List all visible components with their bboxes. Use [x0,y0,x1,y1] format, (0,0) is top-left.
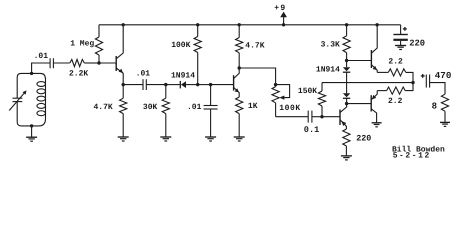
wire tank left branch top [17,73,31,98]
svg-text:3.3K: 3.3K [321,41,340,50]
wire pot bottom to 0.1 cap [276,116,309,118]
svg-text:1N914: 1N914 [316,66,340,75]
transistor Q2 emitter [234,87,240,97]
label + 220 cap [403,27,407,31]
transistor Q3 base bar [370,50,372,68]
wire emitter node to .01 cap [123,84,143,86]
node Q1 emitter [122,83,125,86]
wire .01 node to Q2 base [211,84,234,86]
svg-text:2.2: 2.2 [388,97,403,106]
transistor Q4 emitter [340,120,346,129]
transistor Q5 emitter [371,91,377,100]
node output [411,81,414,84]
label 100K top [171,41,190,50]
svg-text:220: 220 [356,133,371,143]
svg-text:30K: 30K [143,103,158,112]
wire output line 150K to cap [322,82,413,84]
label 1N914 D1 [171,72,195,81]
resistor 100K [194,37,201,53]
wire cap to speaker [430,83,445,95]
resistor 3.3K [343,25,350,61]
resistor 1Meg [95,37,102,55]
wire cap to 30K node [146,84,166,86]
transistor Q1 emitter [116,68,123,85]
svg-text:100K: 100K [279,104,300,113]
label 150K [298,87,317,96]
svg-text:4.7K: 4.7K [245,42,264,51]
wire 2.2K to base node [84,62,99,64]
ground .01 bypass [205,137,216,141]
transistor Q5 collector [371,109,376,123]
label 1N914 D2 [316,66,340,75]
resistor 30K [162,85,169,137]
label 8 [432,101,437,111]
ground tank [26,137,37,141]
label date 5-2-12 [393,152,431,161]
capacitor .01 detector coupling [143,79,146,90]
capacitor .01 input [50,58,53,68]
capacitor .01 input left lead [49,62,51,64]
node rail / 100K [196,23,199,26]
svg-text:220: 220 [409,39,425,49]
diode D3 1N914 [343,93,350,98]
wire 100K to node [197,53,199,85]
node rail / Q1 collector [122,23,125,26]
node Q2 collector [238,66,241,69]
resistor 4.7K Q2 load [236,25,243,68]
label 100K pot [279,104,300,113]
wire diode to 100K node [186,84,198,86]
wire tank top node to coupling cap [32,63,50,73]
node rail / Q3 collector [375,23,378,26]
ground speaker [440,122,450,126]
inductor L1 loops [37,80,46,119]
label 1 Meg [70,39,94,48]
capacitor .01 bypass [204,85,218,137]
label +9 [274,4,286,13]
wire diode to diode [346,72,348,93]
wire 100K node to .01 node [198,84,211,86]
label 3.3K [321,41,340,50]
transistor Q2 base bar [233,75,235,90]
label + 470 cap [421,74,425,78]
variable capacitor C1 plates [13,98,23,101]
ground 4.7K [118,137,129,141]
wire +9V rail [99,24,401,26]
transistor Q1 base bar [115,56,117,71]
ground 220 cap [395,46,406,50]
node 100K bottom [196,83,199,86]
resistor 2.2 bottom [387,87,406,94]
label 2.2 top [388,58,403,67]
transistor Q5 base bar [370,95,372,111]
inductor L1 top lead [32,73,46,79]
resistor 2.2K [70,59,85,66]
wire 1Meg to base node [98,55,100,63]
wire cap to 2.2K [53,62,69,64]
label .01 input cap [34,52,49,61]
resistor 150K [318,83,325,117]
node pot top [274,83,277,86]
resistor 4.7K Q1 emitter [120,85,127,137]
node Q3 base / diode anode [345,59,348,62]
variable capacitor C1 arrow [9,90,26,110]
ground 1K [234,137,245,141]
power +9 supply arrow [280,12,287,25]
svg-text:150K: 150K [298,87,317,96]
svg-text:5-2-12: 5-2-12 [393,152,431,161]
svg-text:4.7K: 4.7K [94,103,113,112]
diode D1 1N914 [180,81,186,89]
wire 30K node to diode [166,84,181,86]
label 220 bottom [356,133,371,143]
wire Q3 emitter to 2.2 [377,71,388,73]
svg-text:0.1: 0.1 [304,125,319,135]
node tank top [30,72,33,75]
label 220 top [409,39,425,49]
svg-text:+9: +9 [274,4,286,13]
transistor Q4 collector [340,104,347,113]
svg-text:100K: 100K [171,41,190,50]
resistor 2.2 top [388,69,406,76]
wire rail corner to 1Meg [98,25,100,37]
wire 2.2 to output node [406,72,413,82]
ground 30K [160,137,171,141]
wire rail end to 220 cap [400,25,402,35]
label 470 [435,70,452,81]
potentiometer 100K body [272,85,279,117]
capacitor 0.1 [308,111,312,123]
node .01 bypass top [209,83,212,86]
node rail / +9 supply [282,23,285,26]
wire rail to 100K [197,25,199,37]
node Q4 collector / Q5 base [345,102,348,105]
wire node to Q3 base [347,60,372,62]
label 30K [143,103,158,112]
wire tank bottom node [30,124,33,137]
wire Q1 base [99,62,116,64]
resistor 220 emitter [343,129,350,156]
node rail / 4.7K [238,23,241,26]
svg-text:2.2: 2.2 [388,58,403,67]
diode D2 1N914 [343,61,350,73]
transistor Q1 collector [116,25,123,59]
label 0.1 [304,125,319,135]
node Q1 base / 1Meg [97,61,100,64]
node rail / 3.3K [345,23,348,26]
label .01 bypass [187,103,202,112]
transistor Q3 emitter [371,65,377,73]
label .01 detector cap [136,70,151,79]
wire Q4 collector to Q5 base [347,103,372,105]
transistor Q2 collector [234,68,240,79]
svg-text:.01: .01 [34,52,49,61]
svg-text:1N914: 1N914 [171,72,195,81]
wire 2.2 to output node [405,83,413,91]
label 4.7K right [245,42,264,51]
node 150K bottom / Q4 base [320,115,323,118]
svg-text:.01: .01 [187,103,202,112]
wire node to Q4 base [322,116,340,118]
wire tank left branch bottom [17,102,31,126]
svg-text:1K: 1K [248,102,258,111]
resistor 1K [236,97,243,137]
ground Q5 [372,123,382,127]
label Bill Bowden [392,145,445,154]
svg-text:.01: .01 [136,70,151,79]
svg-text:1 Meg: 1 Meg [70,39,94,48]
label 1K [248,102,258,111]
resistor 8 ohm speaker [441,94,448,122]
label 4.7K left [94,103,113,112]
capacitor 220 bypass [393,35,407,46]
svg-text:470: 470 [435,70,452,81]
wire diode to Q4 collector node [346,98,348,103]
transistor Q3 collector [371,25,377,53]
ground 220 [341,156,352,160]
label 2.2 bottom [388,97,403,106]
inductor L1 bottom lead [32,119,46,126]
wire Q5 emitter to 2.2 [377,90,386,92]
potentiometer 100K wiper [276,85,290,100]
wire Q2 collector to pot [239,68,275,85]
capacitor 470 output [426,75,429,88]
svg-text:2.2K: 2.2K [69,70,88,79]
svg-text:8: 8 [432,101,437,111]
transistor Q4 base bar [339,110,341,126]
wire 0.1 to 150K node [312,116,322,118]
node 30K top [164,83,167,86]
label 2.2K [69,70,88,79]
